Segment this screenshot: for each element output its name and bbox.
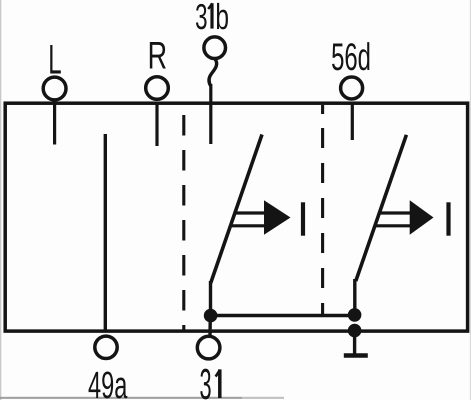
wire blade S2 to node [353, 279, 356, 316]
terminal 56d circle [341, 77, 363, 99]
scan artifact bottom edge [0, 397, 242, 399]
svg-text:49a: 49a [88, 365, 128, 400]
actuator end bar S1 [301, 202, 305, 235]
ground bar [344, 353, 368, 357]
junction dot node C [348, 324, 362, 338]
dashed separator right [321, 105, 324, 114]
terminal 31b circle [204, 37, 226, 59]
junction dot node A [204, 309, 218, 323]
svg-text:3: 3 [195, 0, 207, 37]
switch blade S2 [356, 135, 407, 281]
squiggle wire from 31b [209, 58, 217, 86]
switch housing box [5, 103, 467, 331]
actuator arrow head S2 [410, 200, 434, 234]
svg-text:3: 3 [200, 361, 212, 400]
svg-text:56d: 56d [331, 36, 371, 79]
wire stub below 56d [351, 103, 354, 140]
actuator arrow head S1 [264, 200, 291, 234]
svg-text:L: L [48, 36, 61, 83]
svg-text:R: R [148, 35, 167, 78]
svg-text:b: b [215, 0, 229, 37]
actuator fork bottom S2 [376, 224, 411, 227]
wire link node31 [211, 314, 355, 317]
actuator fork top S2 [380, 211, 411, 214]
actuator end bar S2 [446, 202, 450, 235]
wire stub below R [155, 103, 158, 146]
wire node to terminal 31 [208, 315, 212, 336]
junction dot node B [348, 308, 362, 322]
wire 31b into box [209, 84, 212, 144]
switch blade S1 [211, 135, 262, 284]
terminal 31 circle [197, 336, 220, 359]
terminal L circle [43, 77, 66, 100]
terminal R circle [146, 77, 169, 100]
ground stub wire [353, 330, 356, 354]
scan artifact right edge [470, 0, 471, 400]
actuator fork bottom S1 [231, 224, 266, 227]
terminal 49a circle [95, 336, 117, 358]
wire blade S1 to node [209, 281, 212, 318]
wire 49a vertical [104, 134, 107, 332]
dashed separator left [182, 115, 185, 330]
actuator fork top S1 [235, 211, 266, 214]
wire stub below L [53, 103, 56, 145]
scan artifact left edge [0, 0, 1, 400]
dashed separator right (cont) [321, 128, 324, 317]
